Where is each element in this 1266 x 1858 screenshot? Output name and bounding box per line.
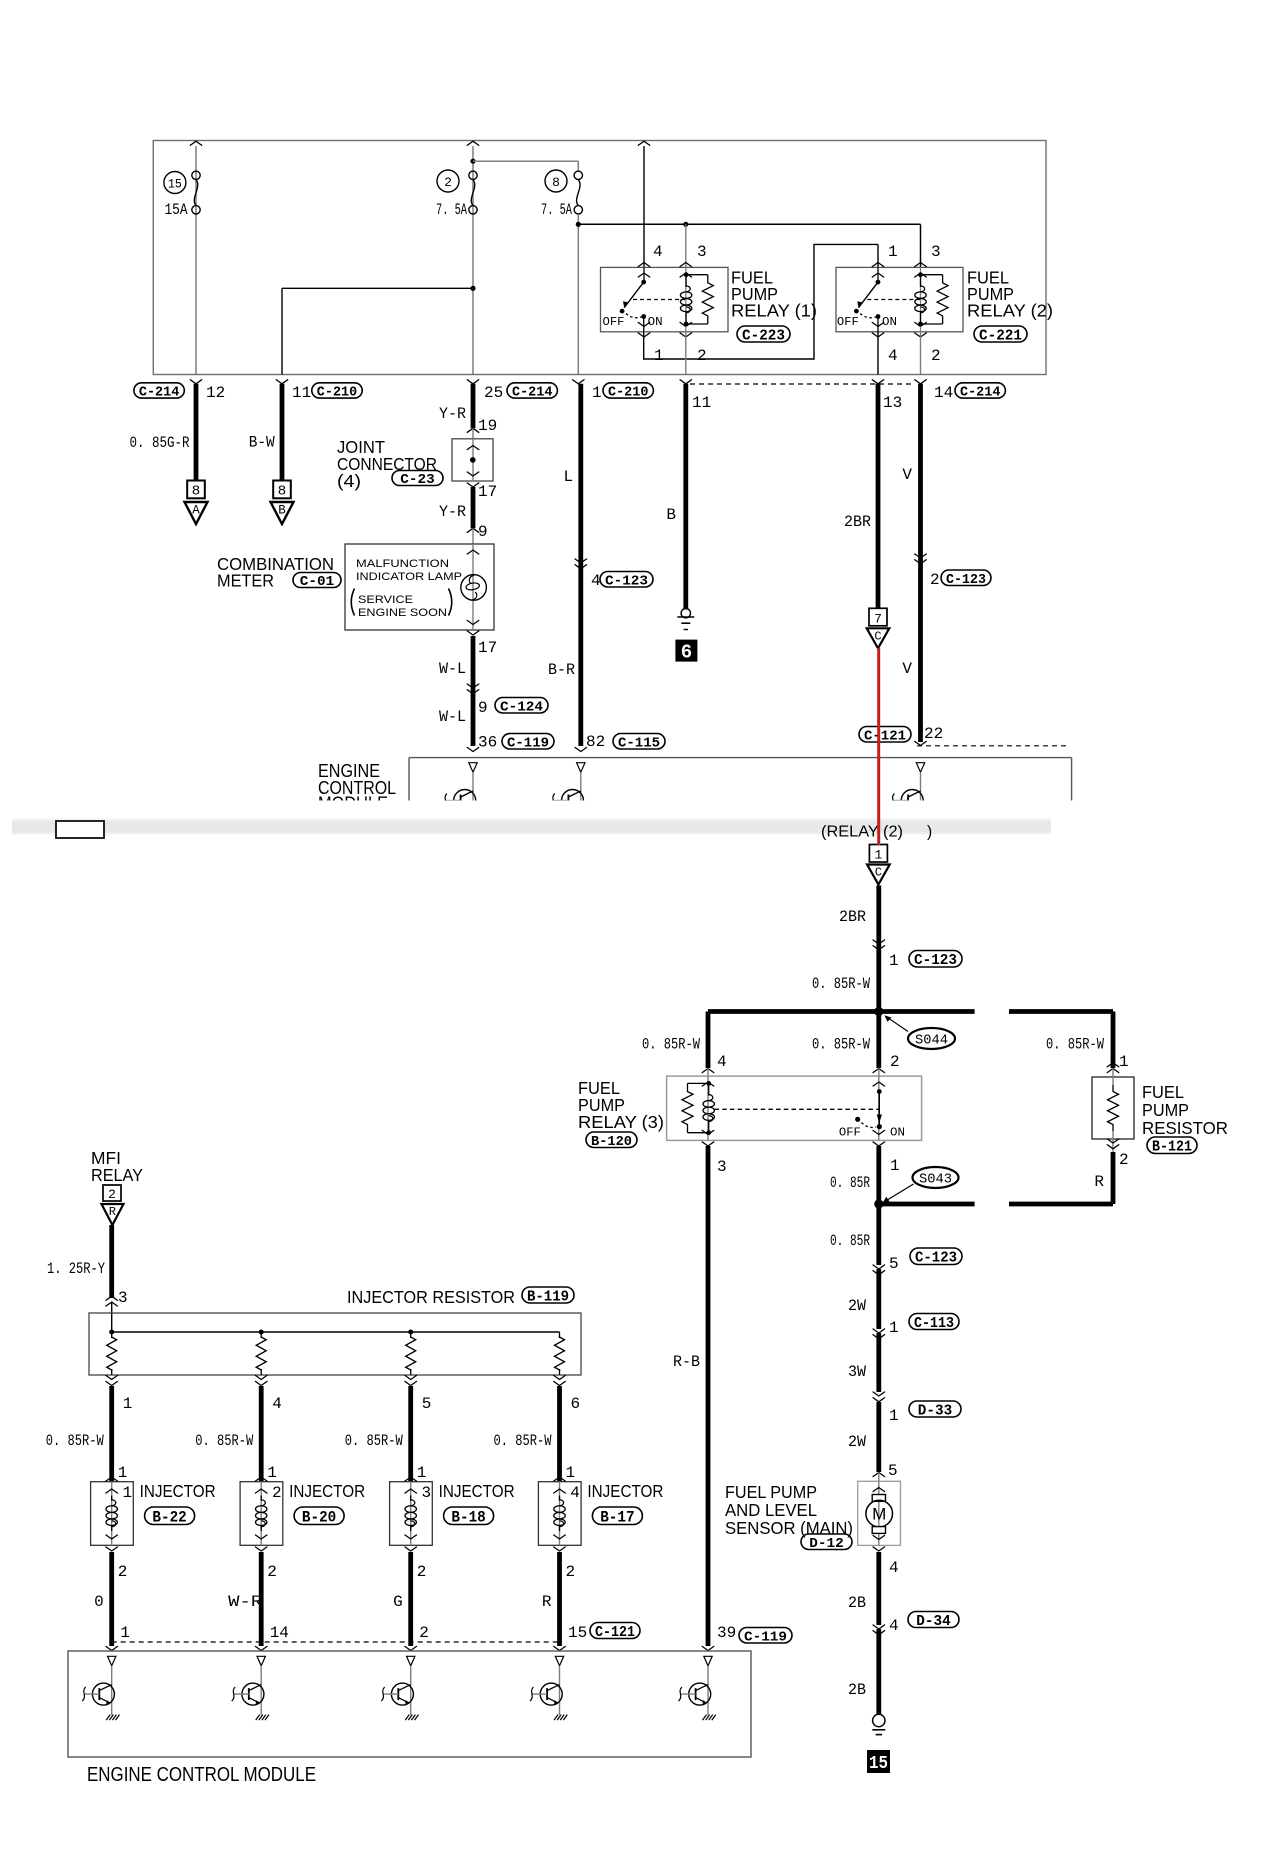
- svg-text:7. 5A: 7. 5A: [541, 201, 572, 219]
- svg-text:C-210: C-210: [317, 385, 357, 401]
- svg-text:7. 5A: 7. 5A: [436, 201, 467, 219]
- svg-text:C: C: [874, 629, 881, 643]
- svg-text:C-123: C-123: [605, 573, 648, 589]
- svg-text:2: 2: [272, 1484, 282, 1502]
- svg-text:RELAY (3): RELAY (3): [578, 1112, 664, 1132]
- svg-text:B-W: B-W: [249, 434, 275, 452]
- svg-text:G: G: [393, 1593, 403, 1611]
- svg-text:0. 85R-W: 0. 85R-W: [195, 1432, 253, 1450]
- svg-text:1: 1: [267, 1464, 277, 1482]
- svg-text:C-221: C-221: [979, 328, 1022, 344]
- svg-text:2: 2: [697, 347, 707, 365]
- svg-text:INJECTOR RESISTOR: INJECTOR RESISTOR: [347, 1287, 515, 1307]
- svg-text:4: 4: [570, 1484, 580, 1502]
- svg-text:11: 11: [292, 384, 311, 402]
- svg-text:0. 85R: 0. 85R: [830, 1174, 870, 1192]
- svg-text:RESISTOR: RESISTOR: [1142, 1118, 1228, 1138]
- svg-text:W-R: W-R: [228, 1593, 262, 1611]
- svg-text:C-119: C-119: [507, 735, 549, 751]
- svg-text:ENGINE CONTROL MODULE: ENGINE CONTROL MODULE: [87, 1763, 316, 1786]
- svg-text:INJECTOR: INJECTOR: [439, 1481, 515, 1501]
- svg-text:C-210: C-210: [608, 385, 648, 401]
- svg-text:C-214: C-214: [960, 385, 1001, 401]
- svg-text:2: 2: [417, 1563, 427, 1581]
- svg-text:1. 25R-Y: 1. 25R-Y: [47, 1260, 105, 1278]
- svg-text:SERVICE: SERVICE: [358, 594, 413, 606]
- svg-text:14: 14: [934, 384, 953, 402]
- svg-text:4: 4: [717, 1053, 727, 1071]
- svg-text:C-214: C-214: [139, 385, 180, 401]
- svg-text:2BR: 2BR: [844, 513, 871, 531]
- svg-text:C-01: C-01: [300, 575, 334, 590]
- svg-text:15A: 15A: [165, 201, 188, 219]
- svg-text:B: B: [278, 504, 286, 518]
- svg-text:39: 39: [717, 1624, 736, 1642]
- svg-text:9: 9: [478, 699, 488, 717]
- svg-text:82: 82: [586, 733, 605, 751]
- svg-text:11: 11: [692, 394, 711, 412]
- svg-text:17: 17: [478, 639, 497, 657]
- svg-text:2: 2: [930, 571, 940, 589]
- svg-text:RELAY (1): RELAY (1): [731, 301, 817, 321]
- svg-text:2: 2: [108, 1187, 116, 1202]
- svg-text:ON: ON: [648, 315, 663, 329]
- svg-text:1: 1: [592, 384, 602, 402]
- svg-text:2: 2: [1119, 1151, 1129, 1169]
- svg-text:C-214: C-214: [512, 385, 553, 401]
- svg-text:OFF: OFF: [837, 315, 859, 329]
- svg-text:2: 2: [419, 1624, 429, 1642]
- svg-text:3: 3: [697, 243, 707, 261]
- svg-text:2W: 2W: [848, 1297, 866, 1315]
- svg-text:INDICATOR LAMP: INDICATOR LAMP: [356, 571, 462, 583]
- svg-text:M: M: [872, 1505, 886, 1524]
- svg-text:2: 2: [566, 1563, 576, 1581]
- svg-text:2B: 2B: [848, 1681, 866, 1699]
- svg-text:13: 13: [883, 394, 902, 412]
- svg-text:S044: S044: [915, 1033, 948, 1049]
- svg-text:15: 15: [168, 177, 182, 192]
- svg-text:A: A: [192, 504, 200, 518]
- svg-text:1: 1: [890, 1157, 900, 1175]
- svg-text:ON: ON: [890, 1126, 905, 1140]
- svg-text:1: 1: [120, 1624, 130, 1642]
- svg-text:AND LEVEL: AND LEVEL: [725, 1500, 817, 1520]
- svg-text:1: 1: [122, 1484, 132, 1502]
- svg-text:0. 85R-W: 0. 85R-W: [46, 1432, 104, 1450]
- svg-text:L: L: [564, 468, 574, 486]
- svg-text:1: 1: [123, 1395, 133, 1413]
- svg-text:2: 2: [444, 175, 452, 190]
- svg-text:ON: ON: [882, 315, 897, 329]
- svg-text:5: 5: [888, 1462, 898, 1480]
- svg-text:2W: 2W: [848, 1433, 866, 1451]
- svg-text:4: 4: [888, 347, 898, 365]
- svg-text:C-113: C-113: [914, 1316, 954, 1332]
- svg-text:1: 1: [889, 1407, 899, 1425]
- svg-text:RELAY: RELAY: [91, 1165, 143, 1185]
- svg-text:R: R: [1094, 1173, 1104, 1191]
- svg-text:B-120: B-120: [591, 1134, 632, 1150]
- svg-text:R: R: [542, 1593, 552, 1611]
- svg-text:2: 2: [118, 1563, 128, 1581]
- svg-text:R: R: [109, 1205, 116, 1219]
- svg-text:B-17: B-17: [600, 1509, 634, 1527]
- svg-text:): ): [927, 824, 932, 841]
- svg-text:3W: 3W: [848, 1363, 866, 1381]
- svg-text:D-12: D-12: [809, 1536, 843, 1552]
- svg-text:(4): (4): [337, 471, 361, 491]
- svg-text:R-B: R-B: [673, 1353, 700, 1371]
- svg-text:RELAY (2): RELAY (2): [967, 301, 1053, 321]
- svg-text:3: 3: [118, 1289, 128, 1307]
- svg-text:B-121: B-121: [1152, 1138, 1192, 1156]
- svg-text:3: 3: [421, 1484, 431, 1502]
- svg-text:1: 1: [566, 1464, 576, 1482]
- svg-text:19: 19: [478, 417, 497, 435]
- svg-text:(RELAY (2): (RELAY (2): [821, 824, 903, 841]
- svg-text:1: 1: [118, 1464, 128, 1482]
- svg-text:B-119: B-119: [527, 1289, 569, 1305]
- svg-text:0. 85R: 0. 85R: [830, 1232, 870, 1250]
- svg-text:0. 85R-W: 0. 85R-W: [494, 1432, 552, 1450]
- svg-text:C-123: C-123: [915, 1249, 957, 1267]
- svg-text:4: 4: [889, 1617, 899, 1635]
- svg-text:C-119: C-119: [744, 1629, 787, 1645]
- svg-text:ENGINE SOON: ENGINE SOON: [358, 607, 447, 619]
- svg-text:9: 9: [478, 523, 488, 541]
- svg-text:B-R: B-R: [548, 661, 575, 679]
- svg-text:4: 4: [272, 1395, 282, 1413]
- svg-text:B-22: B-22: [152, 1509, 186, 1527]
- svg-text:15: 15: [568, 1624, 587, 1642]
- svg-text:0. 85R-W: 0. 85R-W: [1046, 1036, 1104, 1054]
- svg-text:D-34: D-34: [916, 1614, 951, 1630]
- svg-text:25: 25: [484, 384, 503, 402]
- svg-text:C-223: C-223: [742, 328, 785, 344]
- svg-text:Y-R: Y-R: [439, 405, 466, 423]
- svg-text:8: 8: [278, 484, 286, 500]
- svg-text:FUEL PUMP: FUEL PUMP: [725, 1482, 817, 1502]
- svg-text:5: 5: [422, 1395, 432, 1413]
- svg-text:PUMP: PUMP: [1142, 1100, 1189, 1120]
- svg-text:OFF: OFF: [839, 1126, 861, 1140]
- svg-text:22: 22: [924, 725, 943, 743]
- svg-text:6: 6: [571, 1395, 581, 1413]
- svg-text:S043: S043: [919, 1172, 952, 1188]
- svg-text:C-121: C-121: [864, 728, 906, 744]
- svg-text:W-L: W-L: [439, 708, 466, 726]
- svg-text:C-121: C-121: [595, 1625, 635, 1641]
- svg-text:C-123: C-123: [946, 572, 986, 588]
- svg-text:36: 36: [478, 734, 497, 752]
- svg-text:C: C: [875, 866, 882, 880]
- svg-text:3: 3: [717, 1158, 727, 1176]
- svg-text:8: 8: [192, 484, 200, 500]
- svg-text:C-123: C-123: [914, 951, 957, 969]
- svg-text:2: 2: [267, 1563, 277, 1581]
- svg-text:4: 4: [653, 243, 663, 261]
- svg-text:14: 14: [270, 1624, 289, 1642]
- svg-text:FUEL: FUEL: [1142, 1082, 1184, 1102]
- svg-text:MALFUNCTION: MALFUNCTION: [356, 558, 449, 570]
- svg-text:4: 4: [889, 1559, 899, 1577]
- svg-text:B: B: [666, 506, 676, 524]
- svg-text:0. 85R-W: 0. 85R-W: [642, 1036, 700, 1054]
- svg-text:INJECTOR: INJECTOR: [140, 1481, 216, 1501]
- svg-text:1: 1: [654, 347, 664, 365]
- svg-text:7: 7: [874, 611, 882, 626]
- svg-text:B-20: B-20: [302, 1509, 336, 1527]
- svg-text:C-115: C-115: [618, 735, 660, 751]
- svg-text:C-124: C-124: [500, 699, 543, 715]
- svg-text:INJECTOR: INJECTOR: [587, 1481, 663, 1501]
- svg-text:4: 4: [591, 572, 601, 590]
- svg-text:5: 5: [889, 1255, 899, 1273]
- svg-text:1: 1: [889, 1319, 899, 1337]
- svg-text:METER: METER: [217, 571, 274, 591]
- svg-text:0. 85R-W: 0. 85R-W: [812, 1036, 870, 1054]
- svg-text:17: 17: [478, 483, 497, 501]
- svg-text:0: 0: [94, 1593, 104, 1611]
- svg-text:0. 85R-W: 0. 85R-W: [812, 975, 870, 993]
- svg-text:1: 1: [1119, 1053, 1129, 1071]
- svg-text:2: 2: [931, 347, 941, 365]
- svg-text:V: V: [902, 466, 912, 484]
- svg-text:0. 85G-R: 0. 85G-R: [130, 434, 190, 452]
- svg-text:D-33: D-33: [918, 1403, 953, 1419]
- svg-text:1: 1: [888, 243, 898, 261]
- svg-text:8: 8: [552, 175, 560, 190]
- svg-text:2: 2: [890, 1053, 900, 1071]
- svg-text:2B: 2B: [848, 1594, 866, 1612]
- svg-text:1: 1: [417, 1464, 427, 1482]
- svg-text:2BR: 2BR: [839, 908, 866, 926]
- svg-text:B-18: B-18: [451, 1509, 485, 1527]
- svg-text:12: 12: [206, 384, 225, 402]
- svg-text:Y-R: Y-R: [439, 503, 466, 521]
- svg-text:INJECTOR: INJECTOR: [289, 1481, 365, 1501]
- svg-text:V: V: [902, 660, 912, 678]
- svg-text:1: 1: [874, 848, 882, 863]
- svg-text:OFF: OFF: [603, 315, 625, 329]
- svg-text:C-23: C-23: [400, 473, 434, 488]
- svg-text:0. 85R-W: 0. 85R-W: [345, 1432, 403, 1450]
- svg-text:3: 3: [931, 243, 941, 261]
- svg-text:W-L: W-L: [439, 660, 466, 678]
- svg-text:1: 1: [889, 952, 899, 970]
- svg-text:6: 6: [681, 642, 692, 664]
- svg-text:15: 15: [869, 1754, 888, 1774]
